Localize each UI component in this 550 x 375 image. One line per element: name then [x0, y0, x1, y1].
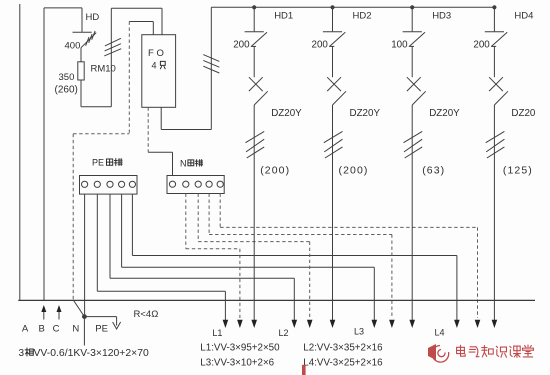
wire neutral diagonal to earth node: [73, 300, 84, 317]
svg-text:(200): (200): [260, 165, 290, 177]
svg-text:L3:VV-3×10+2×6: L3:VV-3×10+2×6: [200, 358, 274, 369]
svg-text:DZ20: DZ20: [511, 108, 536, 119]
svg-text:HD3: HD3: [432, 11, 451, 22]
svg-text:HD4: HD4: [514, 11, 533, 22]
wire PE feeder L2 down: [293, 278, 295, 320]
svg-text:L2: L2: [279, 328, 289, 338]
svg-text:PE: PE: [95, 324, 108, 335]
svg-text:(63): (63): [422, 165, 445, 177]
arrow phase C incoming: [58, 307, 60, 320]
wire PE feeder L3 run: [122, 266, 375, 268]
wire PE feeder L4 down: [456, 256, 458, 321]
svg-text:N: N: [72, 324, 79, 335]
arrow PE L4: [454, 320, 460, 328]
switch HD2 hinge tick: [329, 45, 334, 47]
wire bend right: [81, 106, 111, 108]
svg-text:L4:VV-3×25+2×16: L4:VV-3×25+2×16: [303, 358, 383, 369]
N busbar terminal 5: [217, 181, 223, 187]
N busbar terminal 2: [183, 181, 189, 187]
wire meter out 2: [160, 107, 162, 129]
svg-text:L4: L4: [435, 328, 445, 338]
wire HD3 drop: [411, 7, 413, 31]
switch HD3 blade: [409, 32, 425, 46]
svg-text:F O: F O: [148, 48, 164, 59]
PE busbar terminal 4: [119, 181, 125, 187]
svg-text:3: 3: [19, 348, 25, 359]
cable marks feeder L3: [404, 131, 423, 158]
wire PE feeder L1 down: [224, 291, 226, 320]
svg-text:PE: PE: [92, 158, 104, 168]
watermark logo text: [457, 345, 466, 356]
N busbar terminal 4: [206, 181, 212, 187]
svg-text:A: A: [22, 324, 29, 335]
svg-text:(200): (200): [339, 165, 369, 177]
svg-text:VV-0.6/1KV-3×120+2×70: VV-0.6/1KV-3×120+2×70: [34, 348, 149, 359]
fuse RM10: [78, 62, 84, 80]
PE busbar terminal 5: [129, 181, 135, 187]
cable marks feeder L2: [324, 131, 343, 158]
svg-text:B: B: [39, 324, 45, 335]
switch HD2 blade: [330, 32, 346, 46]
breaker Q3 contact cross: [407, 77, 421, 91]
switch HD4 contact bar: [485, 31, 504, 33]
wire meter inner drop: [152, 22, 154, 35]
svg-text:DZ20Y: DZ20Y: [350, 108, 381, 119]
wire N feeder L2 run dashed: [198, 241, 310, 243]
wire N feeder L1 down dashed: [239, 249, 241, 318]
wire meter loop top: [111, 7, 162, 9]
wire riser to meter loop: [110, 8, 112, 107]
N busbar terminal 1: [169, 181, 175, 187]
breaker Q2 contact cross: [327, 77, 341, 91]
wire meter out 2 bend: [161, 129, 211, 131]
wire N feeder L3 drop dashed: [208, 194, 210, 235]
svg-text:DZ20Y: DZ20Y: [271, 108, 302, 119]
svg-text:400: 400: [65, 41, 81, 52]
wire N feeder L1 drop dashed: [185, 194, 187, 249]
breaker Q1 contact cross: [249, 77, 263, 91]
wire grounding stem: [116, 317, 118, 326]
svg-text:C: C: [53, 324, 60, 335]
wire N feeder L4 drop dashed: [219, 194, 221, 228]
PE busbar terminal 1: [82, 181, 88, 187]
wire HD4 to breaker: [493, 46, 495, 77]
breaker Q4 contact cross: [489, 77, 503, 91]
wire switch to fuse: [80, 48, 82, 62]
wire N feeder L4 down dashed: [477, 227, 479, 318]
watermark logo icon: [428, 344, 449, 362]
wire PE down lead: [83, 317, 85, 346]
arrow phase L4: [492, 320, 498, 328]
wire bottom collector: [18, 299, 535, 301]
arrow N L3: [389, 320, 395, 328]
svg-text:HD2: HD2: [353, 11, 372, 22]
switch HD1 blade: [251, 32, 267, 46]
switch HD contact bar: [73, 31, 92, 33]
wire PE feeder L1 drop: [96, 194, 98, 291]
svg-text:100: 100: [391, 40, 408, 51]
wire meter out dashed: [147, 107, 149, 152]
switch HD2 contact bar: [323, 31, 342, 33]
switch HD4 hinge tick: [491, 45, 496, 47]
meter U1 box FO: [142, 35, 176, 108]
ground electrode symbol: [113, 322, 121, 329]
N busbar terminal 3: [195, 181, 201, 187]
wire to grounding electrode: [84, 316, 116, 318]
svg-text:200: 200: [473, 40, 490, 51]
PE busbar terminal 2: [94, 181, 100, 187]
wire feeder L2 phase down: [332, 105, 334, 320]
breaker Q1 blade: [254, 91, 268, 105]
svg-text:L1:VV-3×95+2×50: L1:VV-3×95+2×50: [200, 342, 280, 353]
switch HD1 contact bar: [245, 31, 264, 33]
switch HD3 contact bar: [403, 31, 422, 33]
cable marks on riser: [104, 38, 121, 56]
switch HD3 hinge tick: [409, 45, 414, 47]
wire fuse down: [80, 80, 82, 107]
wire PE to earth node: [84, 194, 86, 317]
wire PE feeder L2 run: [110, 277, 294, 279]
switch HD pole ticks: [86, 31, 96, 46]
svg-text:DZ20Y: DZ20Y: [429, 108, 460, 119]
wire PE feeder L3 drop: [121, 194, 123, 267]
wire neutral dashed horizontal: [73, 133, 129, 135]
svg-text:L1: L1: [212, 328, 222, 338]
wire PE feeder L4 run: [132, 255, 457, 257]
arrow N L1: [237, 320, 243, 328]
wire N feeder L2 drop dashed: [197, 194, 199, 242]
wire PE feeder L2 drop: [109, 194, 111, 278]
svg-text:200: 200: [233, 40, 250, 51]
arrow N L2: [307, 320, 313, 328]
svg-text:(125): (125): [503, 165, 533, 177]
arrow N L4: [475, 320, 481, 328]
wire HD3 to breaker: [411, 46, 413, 77]
switch HD1 hinge tick: [251, 45, 256, 47]
node bus tap HD1: [252, 5, 256, 9]
wire PE feeder L4 drop: [131, 194, 133, 255]
wire phase-A riser: [19, 4, 21, 300]
cable marks on main riser: [203, 55, 219, 73]
svg-text:4: 4: [152, 61, 157, 71]
wire N feeder L2 down dashed: [309, 242, 311, 318]
wire N feeder L3 run dashed: [209, 234, 392, 236]
wire HD1 to breaker: [253, 46, 255, 77]
svg-text:N: N: [180, 159, 187, 169]
wire HD2 to breaker: [332, 46, 334, 77]
arrow PE L2: [292, 320, 298, 328]
wire top feed horizontal: [44, 7, 82, 9]
wire to N busbar: [172, 152, 174, 175]
svg-text:RM10: RM10: [91, 64, 116, 75]
wire N feeder L1 run dashed: [186, 248, 240, 250]
arrow phase B incoming: [43, 307, 45, 320]
PE busbar terminal 3: [107, 181, 113, 187]
watermark red tick: [302, 365, 306, 375]
wire drop into meter box: [161, 8, 163, 35]
wire feeder L4 phase down: [493, 105, 495, 320]
breaker Q3 blade: [412, 91, 426, 105]
svg-text:L3: L3: [354, 327, 364, 337]
wire N feeder L4 run dashed: [220, 226, 477, 228]
svg-text:200: 200: [312, 40, 329, 51]
N busbar: [167, 176, 224, 194]
wire PE feeder L1 run: [97, 290, 225, 292]
svg-text:L2:VV-3×35+2×16: L2:VV-3×35+2×16: [303, 342, 383, 353]
wire HD4 drop: [493, 7, 495, 31]
switch HD4 blade: [492, 32, 508, 46]
wire meter inner top: [129, 21, 153, 23]
arrow phase L1: [251, 320, 257, 328]
switch HD blade: [81, 33, 96, 48]
svg-text:R<4Ω: R<4Ω: [134, 309, 159, 320]
wire meter out bend: [148, 151, 172, 153]
arrow PE L1: [223, 320, 229, 328]
breaker Q4 blade: [494, 91, 508, 105]
cable marks feeder L4: [486, 131, 505, 158]
wire feeder L3 phase down: [411, 105, 413, 320]
node bus tap HD3: [410, 5, 414, 9]
arrow phase L2: [330, 320, 336, 328]
PE busbar: [80, 176, 138, 195]
node bus tap HD4: [492, 5, 496, 9]
node bus tap HD2: [330, 5, 334, 9]
svg-text:(260): (260): [55, 85, 78, 96]
svg-text:HD1: HD1: [274, 11, 293, 22]
wire HD1 drop: [253, 7, 255, 31]
wire main riser to bus: [210, 7, 212, 129]
wire meter voltage dashed: [128, 22, 130, 134]
wire PE feeder L3 down: [373, 267, 375, 320]
arrow PE L3: [372, 320, 378, 328]
svg-text:HD: HD: [86, 12, 100, 23]
wire distribution bus: [211, 6, 494, 8]
arrow phase L3: [409, 320, 415, 328]
wire feeder L1 phase down: [253, 105, 255, 320]
cable marks feeder L1: [246, 131, 265, 158]
wire phase-B riser: [43, 8, 45, 301]
node earth junction: [82, 314, 87, 319]
svg-text:350: 350: [59, 72, 75, 83]
wire N feeder L3 down dashed: [391, 235, 393, 319]
breaker Q2 blade: [333, 91, 347, 105]
wire neutral dashed riser: [72, 134, 74, 300]
wire drop to main switch HD: [81, 8, 83, 32]
wire HD2 drop: [332, 7, 334, 31]
